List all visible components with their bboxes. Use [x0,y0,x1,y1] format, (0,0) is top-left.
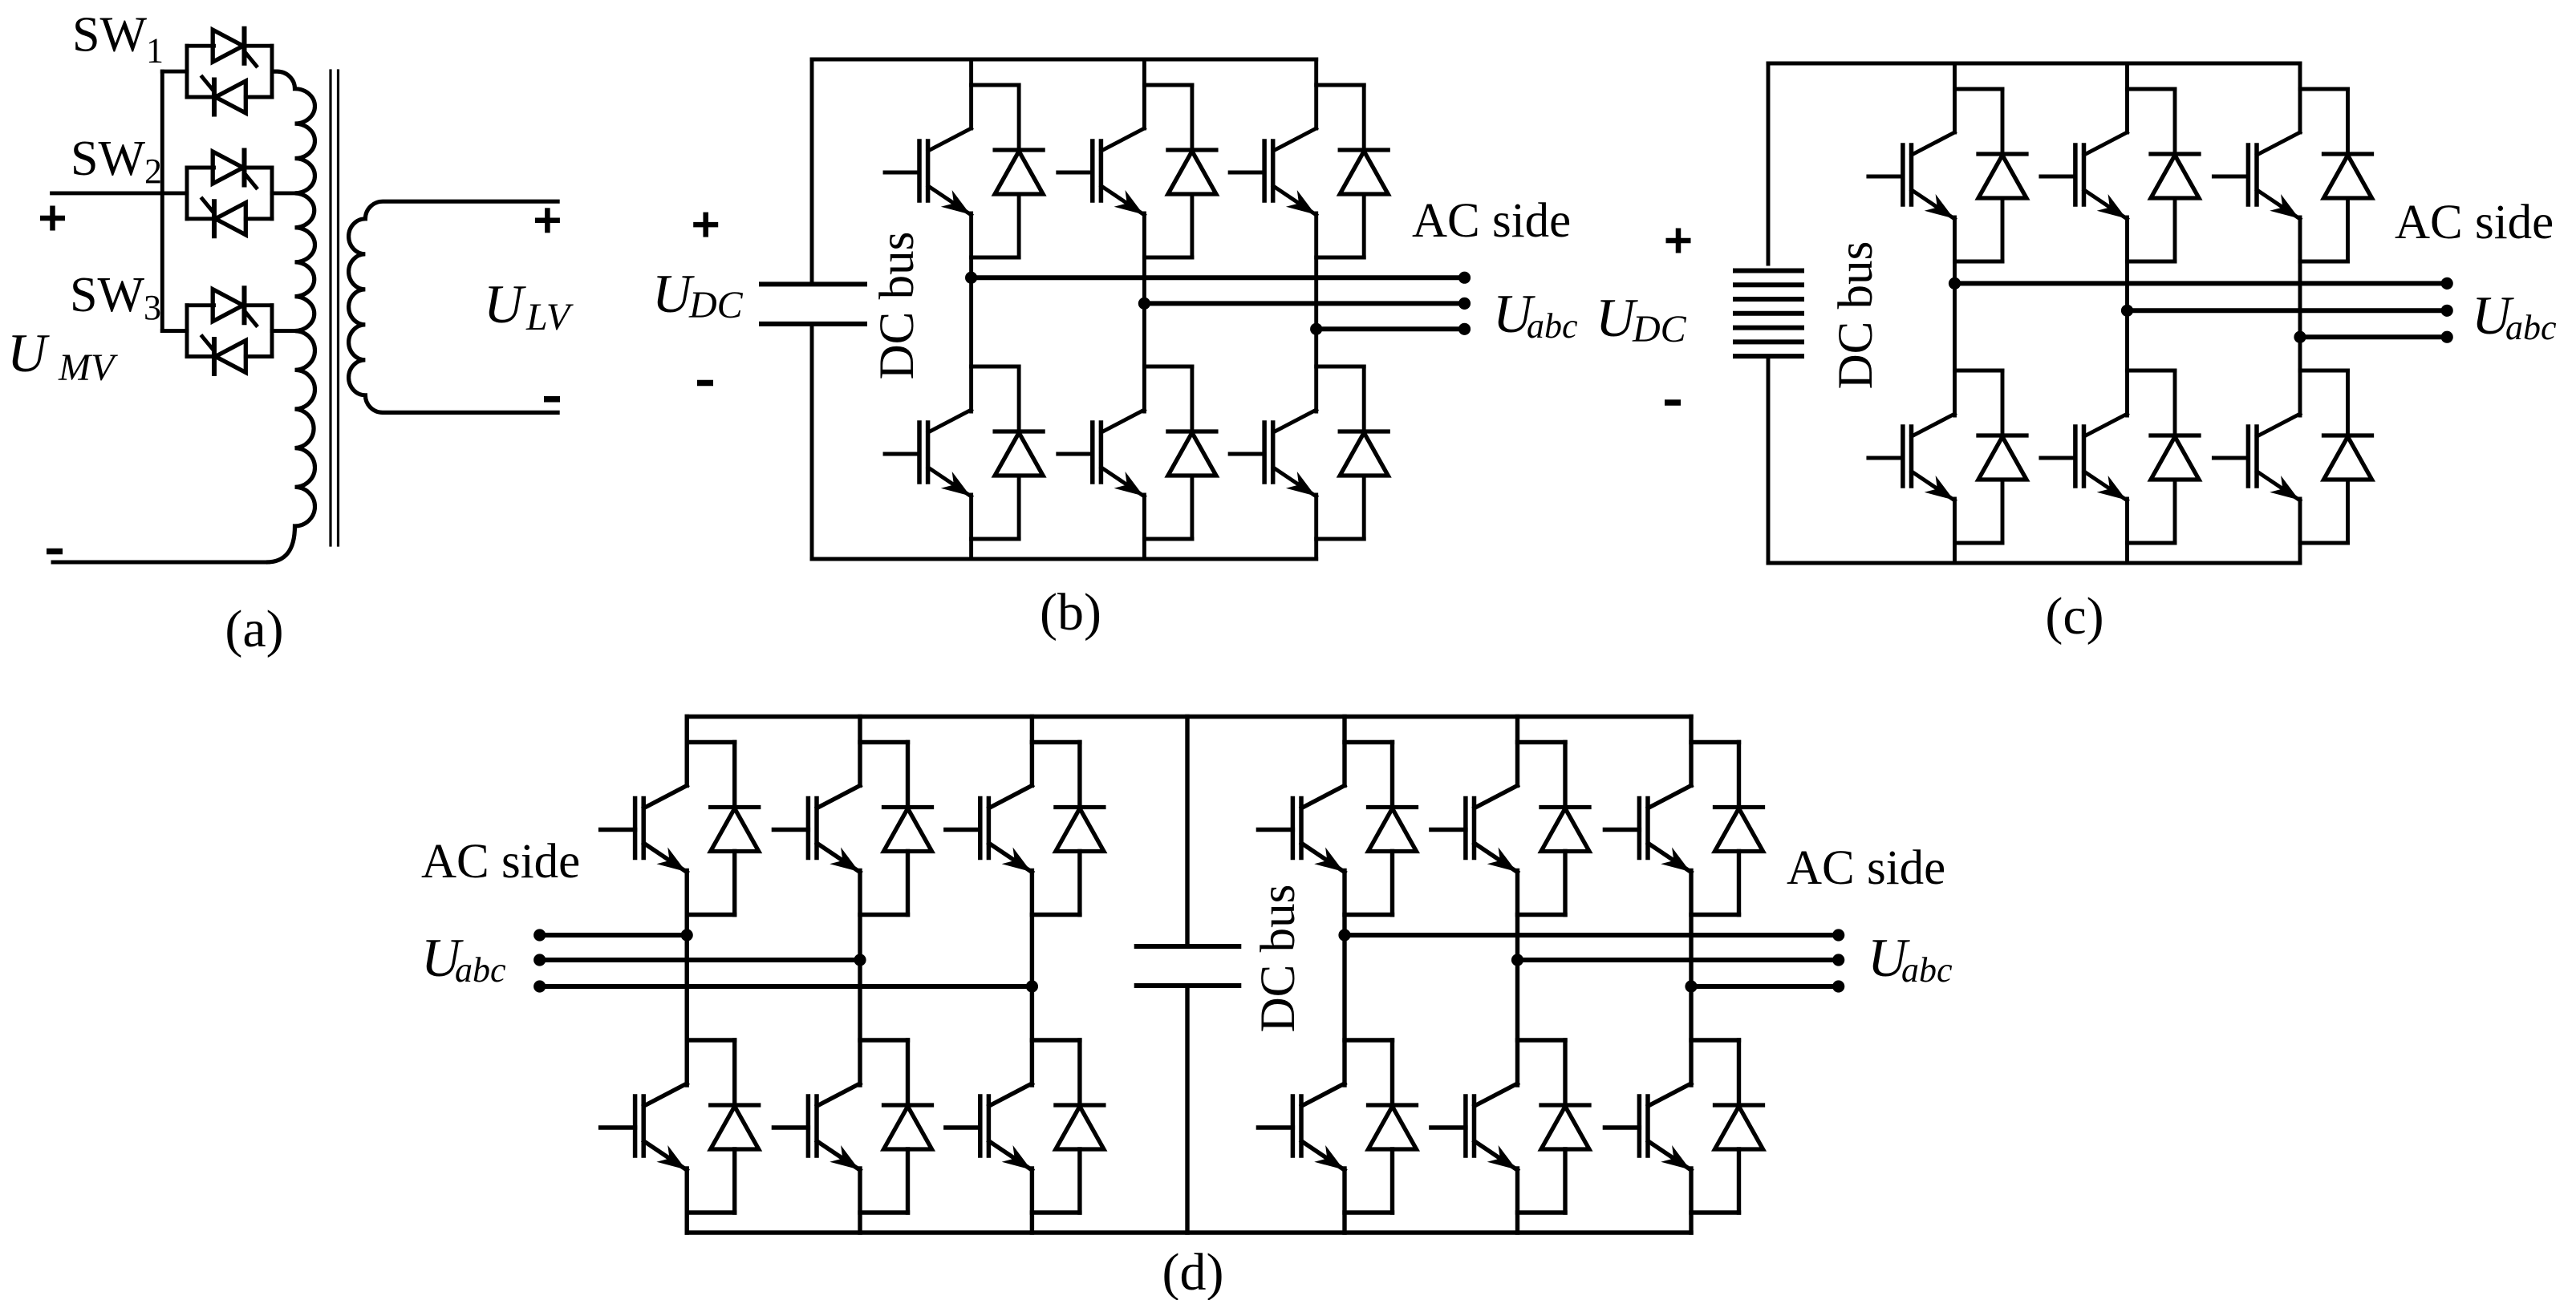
wire dRQ6 (lower leg3) jogs to diode [1691,1040,1739,1213]
wire bQ1 (upper leg1) jogs to diode [972,85,1020,257]
wire dRQ2 (upper leg2) jogs to diode [1518,743,1566,915]
transistor cQ4 (lower leg1) (IGBT) [1868,414,1955,500]
label (c) [2045,587,2103,646]
wire b leg1 middle segment [969,213,973,411]
wire cQ4 (lower leg1) jogs to diode [1955,371,2003,543]
svg-text:(b): (b) [1040,583,1101,642]
wire c negative DC rail [1768,561,2300,565]
wire dLQ2 (upper leg2) jogs to diode [860,743,908,915]
wire dRQ4 (lower leg1) jogs to diode [1345,1040,1393,1213]
transistor dRQ2 (upper leg2) (IGBT) [1431,786,1518,873]
wire MV bottom return [53,561,268,565]
transistor bQ6 (lower leg3) (IGBT) [1230,410,1316,496]
svg-text:AC side: AC side [421,835,580,889]
wire dRQ3 (upper leg3) jogs to diode [1691,743,1739,915]
inductor primary winding (MV side) [266,71,315,562]
wire bQ2 (upper leg2) jogs to diode [1144,85,1192,257]
wire SW bus vertical [160,71,164,331]
transistor cQ5 (lower leg2) (IGBT) [2041,414,2128,500]
transistor cQ3 (upper leg3) (IGBT) [2213,132,2300,219]
transistor dLQ6 (lower leg3) (IGBT) [946,1083,1032,1170]
svg-text:3: 3 [144,288,161,327]
svg-text:SW: SW [72,8,147,63]
wire dLQ3 (upper leg3) jogs to diode [1032,743,1080,915]
diode dRD5 (lower leg2) (antiparallel) [1541,1040,1589,1213]
label plus (b DC) [693,213,718,237]
svg-text:U: U [7,322,50,383]
label (a) [225,600,283,658]
node c phase a junction [1949,277,1961,290]
label plus (LV) [535,208,560,233]
svg-text:U: U [484,273,526,334]
label DC bus (d) [1251,885,1305,1033]
node b phase a terminal [1458,272,1471,284]
label U_DC (b) [652,263,744,326]
thyristor SW1b (reverse) [202,77,245,115]
node c phase b terminal [2441,305,2453,317]
wire c leg2 upper segment [2125,63,2129,132]
wire d left phase c output [540,984,1032,989]
wire dR leg3 lower segment [1689,1168,1693,1233]
wire b leg3 middle segment [1314,213,1318,411]
thyristor SW3a (forward) [213,288,256,326]
inductor secondary winding (LV side) [349,201,560,412]
node b phase a junction [965,272,977,284]
label SW2 [71,132,162,191]
svg-text:(d): (d) [1162,1243,1224,1300]
transistor dRQ5 (lower leg2) (IGBT) [1431,1083,1518,1170]
wire d left phase a output [540,933,688,938]
wire d DC-link lower [1185,986,1189,1233]
diode cD5 (lower leg2) (antiparallel) [2151,371,2199,543]
wire dL leg3 lower segment [1030,1168,1034,1233]
svg-text:DC bus: DC bus [870,232,924,380]
svg-text:(a): (a) [225,600,283,658]
diode dLD6 (lower leg3) (antiparallel) [1056,1040,1104,1213]
transistor bQ3 (upper leg3) (IGBT) [1230,128,1316,215]
svg-text:1: 1 [146,31,164,71]
wire b leg1 lower segment [969,495,973,559]
wire dR leg3 upper segment [1689,717,1693,786]
wire dL leg1 upper segment [685,717,689,786]
node b phase b terminal [1458,298,1471,310]
diode bD6 (lower leg3) (antiparallel) [1340,367,1388,539]
transistor bQ4 (lower leg1) (IGBT) [885,410,972,496]
diode dLD5 (lower leg2) (antiparallel) [884,1040,932,1213]
wire dLQ5 (lower leg2) jogs to diode [860,1040,908,1213]
node c phase c terminal [2441,331,2453,343]
node c phase a terminal [2441,277,2453,290]
label SW1 [72,8,164,71]
wire d right phase a output [1345,933,1839,938]
transformer core [331,71,339,545]
transistor cQ6 (lower leg3) (IGBT) [2213,414,2300,500]
wire c phase c output [2300,334,2447,339]
label SW3 [70,268,161,327]
node d left phase a junction [681,929,693,941]
wire dL leg3 middle segment [1030,871,1034,1086]
svg-text:abc: abc [2505,308,2557,347]
wire SW1 left stub [162,70,187,74]
label DC bus (b) [870,232,924,380]
label U_LV [484,273,574,338]
transistor cQ1 (upper leg1) (IGBT) [1868,132,1955,219]
svg-text:DC bus: DC bus [1829,241,1883,390]
wire c leg2 middle segment [2125,217,2129,415]
label U_abc (b) [1493,283,1578,346]
wire b leg3 upper segment [1314,59,1318,128]
svg-text:abc: abc [1901,950,1953,990]
wire c leg1 upper segment [1953,63,1957,132]
wire SW3 box frame [187,306,272,357]
node d right phase b terminal [1832,954,1844,966]
label U_DC (c) [1596,287,1687,350]
diode bD4 (lower leg1) (antiparallel) [995,367,1043,539]
diode dRD4 (lower leg1) (antiparallel) [1369,1040,1417,1213]
wire d positive DC rail [687,715,1691,719]
wire c leg3 upper segment [2298,63,2302,132]
wire SW2 box frame [187,168,272,219]
node d left phase a terminal [533,929,546,941]
wire c DC-link left upper [1767,63,1771,264]
thyristor SW2a (forward) [213,151,256,188]
wire bQ6 (lower leg3) jogs to diode [1316,367,1365,539]
wire b positive DC rail [812,58,1316,62]
wire dLQ4 (lower leg1) jogs to diode [687,1040,735,1213]
wire dR leg1 upper segment [1342,717,1346,786]
label minus (c DC) [1665,399,1681,406]
wire b phase c output [1316,326,1465,331]
diode dLD4 (lower leg1) (antiparallel) [711,1040,759,1213]
node c phase b junction [2121,305,2133,317]
label AC side (d right) [1787,841,1945,895]
wire d right phase b output [1518,958,1839,962]
label minus (LV) [544,396,560,403]
svg-text:(c): (c) [2045,587,2103,646]
node c phase c junction [2294,331,2306,343]
label U_abc (c) [2472,285,2557,347]
diode dRD3 (upper leg3) (antiparallel) [1715,743,1763,915]
svg-text:abc: abc [455,950,506,990]
svg-text:AC side: AC side [1412,194,1571,248]
wire c leg3 middle segment [2298,217,2302,415]
wire b leg1 upper segment [969,59,973,128]
svg-text:abc: abc [1527,306,1578,346]
capacitor C_b (DC bus) [759,284,867,324]
transistor bQ2 (upper leg2) (IGBT) [1058,128,1145,215]
transistor bQ5 (lower leg2) (IGBT) [1058,410,1145,496]
diode dRD1 (upper leg1) (antiparallel) [1369,743,1417,915]
wire dLQ1 (upper leg1) jogs to diode [687,743,735,915]
diode dLD2 (upper leg2) (antiparallel) [884,743,932,915]
wire b DC-link left lower [810,324,814,559]
wire dR leg1 lower segment [1342,1168,1346,1233]
wire c leg2 lower segment [2125,499,2129,563]
diode dRD6 (lower leg3) (antiparallel) [1715,1040,1763,1213]
node d right phase c terminal [1832,980,1844,992]
wire dL leg2 upper segment [858,717,862,786]
wire c DC-link left lower [1767,356,1771,563]
wire SW1 box frame [187,46,272,97]
label AC side (c) [2395,196,2554,249]
wire dL leg1 lower segment [685,1168,689,1233]
thyristor SW3b (reverse) [202,337,245,375]
wire bQ4 (lower leg1) jogs to diode [972,367,1020,539]
node d right phase b junction [1511,954,1523,966]
label AC side (d left) [421,835,580,889]
wire d right phase c output [1691,984,1839,989]
svg-text:2: 2 [144,152,162,191]
wire b negative DC rail [812,557,1316,561]
transistor dLQ2 (upper leg2) (IGBT) [773,786,860,873]
label (d) [1162,1243,1224,1300]
svg-text:AC side: AC side [2395,196,2554,249]
wire b DC-link left upper [810,59,814,284]
diode bD2 (upper leg2) (antiparallel) [1168,85,1216,257]
wire cQ5 (lower leg2) jogs to diode [2128,371,2176,543]
transistor bQ1 (upper leg1) (IGBT) [885,128,972,215]
diode cD4 (lower leg1) (antiparallel) [1978,371,2026,543]
node d right phase c junction [1685,980,1697,992]
diode dLD3 (upper leg3) (antiparallel) [1056,743,1104,915]
diode cD3 (upper leg3) (antiparallel) [2324,89,2372,261]
capacitor C_d (DC bus) [1134,946,1242,986]
wire c leg1 lower segment [1953,499,1957,563]
thyristor SW1a (forward) [213,29,256,66]
node d right phase a junction [1338,929,1350,941]
wire c leg3 lower segment [2298,499,2302,563]
wire d left phase b output [540,958,860,962]
wire cQ3 (upper leg3) jogs to diode [2300,89,2348,261]
wire b leg2 middle segment [1142,213,1146,411]
label plus (MV) [40,206,65,231]
wire SW2 tap stub [272,191,295,195]
node b phase b junction [1138,298,1150,310]
svg-text:SW: SW [71,132,145,186]
wire dR leg2 lower segment [1515,1168,1519,1233]
svg-text:DC: DC [688,284,744,326]
transistor dLQ5 (lower leg2) (IGBT) [773,1083,860,1170]
wire dRQ5 (lower leg2) jogs to diode [1518,1040,1566,1213]
wire MV input line [52,191,187,195]
transistor dRQ4 (lower leg1) (IGBT) [1258,1083,1345,1170]
wire cQ6 (lower leg3) jogs to diode [2300,371,2348,543]
svg-text:DC: DC [1632,308,1687,350]
transistor dLQ1 (upper leg1) (IGBT) [601,786,688,873]
wire c positive DC rail [1768,62,2300,66]
battery BT_c (DC source) [1733,271,1804,357]
node d left phase b terminal [533,954,546,966]
wire cQ1 (upper leg1) jogs to diode [1955,89,2003,261]
wire c phase a output [1955,281,2448,286]
wire cQ2 (upper leg2) jogs to diode [2128,89,2176,261]
label (b) [1040,583,1101,642]
diode bD3 (upper leg3) (antiparallel) [1340,85,1388,257]
node b phase c terminal [1458,323,1471,335]
transistor dRQ3 (upper leg3) (IGBT) [1604,786,1691,873]
wire dL leg2 lower segment [858,1168,862,1233]
wire dRQ1 (upper leg1) jogs to diode [1345,743,1393,915]
thyristor SW2b (reverse) [202,199,245,236]
wire SW3 left stub [162,329,187,333]
transistor cQ2 (upper leg2) (IGBT) [2041,132,2128,219]
wire dR leg2 upper segment [1515,717,1519,786]
wire c leg1 middle segment [1953,217,1957,415]
svg-text:SW: SW [70,268,144,322]
diode dRD2 (upper leg2) (antiparallel) [1541,743,1589,915]
wire b leg3 lower segment [1314,495,1318,559]
wire dR leg2 middle segment [1515,871,1519,1086]
label U_abc (d left) [421,927,506,990]
diode cD6 (lower leg3) (antiparallel) [2324,371,2372,543]
wire dL leg2 middle segment [858,871,862,1086]
node b phase c junction [1310,323,1322,335]
svg-text:LV: LV [525,296,574,338]
node d left phase c terminal [533,980,546,992]
diode bD1 (upper leg1) (antiparallel) [995,85,1043,257]
label U_abc (d right) [1868,927,1953,990]
transistor dRQ6 (lower leg3) (IGBT) [1604,1083,1691,1170]
label minus (MV) [47,549,63,555]
label DC bus (c) [1829,241,1883,390]
diode bD5 (lower leg2) (antiparallel) [1168,367,1216,539]
wire c phase b output [2128,308,2448,313]
wire b phase b output [1144,301,1464,306]
wire bQ5 (lower leg2) jogs to diode [1144,367,1192,539]
transistor dLQ4 (lower leg1) (IGBT) [601,1083,688,1170]
wire bQ3 (upper leg3) jogs to diode [1316,85,1365,257]
label minus (b DC) [697,380,713,387]
wire d DC-link upper [1185,717,1189,947]
diode dLD1 (upper leg1) (antiparallel) [711,743,759,915]
svg-text:AC side: AC side [1787,841,1945,895]
diode cD2 (upper leg2) (antiparallel) [2151,89,2199,261]
diode cD1 (upper leg1) (antiparallel) [1978,89,2026,261]
wire SW3 tap stub [272,329,295,333]
label plus (c DC) [1666,229,1691,253]
wire dL leg3 upper segment [1030,717,1034,786]
node d left phase c junction [1026,980,1038,992]
transistor dRQ1 (upper leg1) (IGBT) [1258,786,1345,873]
wire b phase a output [972,275,1465,280]
wire b leg2 upper segment [1142,59,1146,128]
wire d negative DC rail [687,1230,1691,1234]
wire b leg2 lower segment [1142,495,1146,559]
wire dR leg3 middle segment [1689,871,1693,1086]
wire dLQ6 (lower leg3) jogs to diode [1032,1040,1080,1213]
svg-text:DC bus: DC bus [1251,885,1305,1033]
wire dL leg1 middle segment [685,871,689,1086]
node d right phase a terminal [1832,929,1844,941]
node d left phase b junction [854,954,866,966]
label AC side (b) [1412,194,1571,248]
label U_MV [7,322,118,389]
wire dR leg1 middle segment [1342,871,1346,1086]
transistor dLQ3 (upper leg3) (IGBT) [946,786,1032,873]
svg-text:MV: MV [58,346,118,389]
